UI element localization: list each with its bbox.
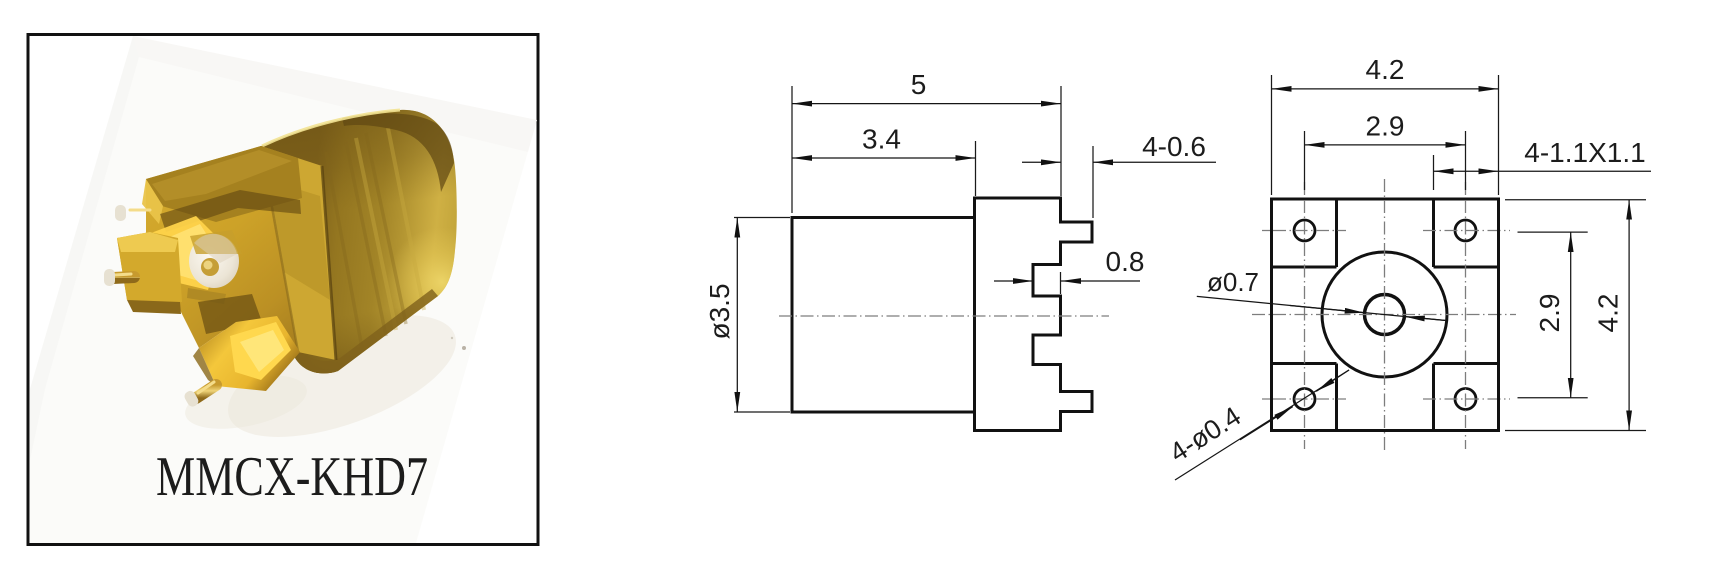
svg-text:4-0.6: 4-0.6 [1142, 131, 1206, 162]
svg-text:5: 5 [911, 69, 927, 100]
svg-text:2.9: 2.9 [1534, 294, 1565, 333]
svg-text:4.2: 4.2 [1593, 294, 1624, 333]
svg-text:0.8: 0.8 [1106, 246, 1145, 277]
svg-text:ø3.5: ø3.5 [704, 283, 735, 339]
svg-text:3.4: 3.4 [862, 124, 901, 155]
svg-text:4-1.1X1.1: 4-1.1X1.1 [1524, 137, 1645, 168]
svg-text:4-ø0.4: 4-ø0.4 [1164, 401, 1246, 468]
svg-text:ø0.7: ø0.7 [1207, 267, 1259, 297]
svg-text:4.2: 4.2 [1366, 54, 1405, 85]
svg-text:2.9: 2.9 [1366, 111, 1405, 142]
svg-text:MMCX-KHD7: MMCX-KHD7 [156, 446, 428, 508]
